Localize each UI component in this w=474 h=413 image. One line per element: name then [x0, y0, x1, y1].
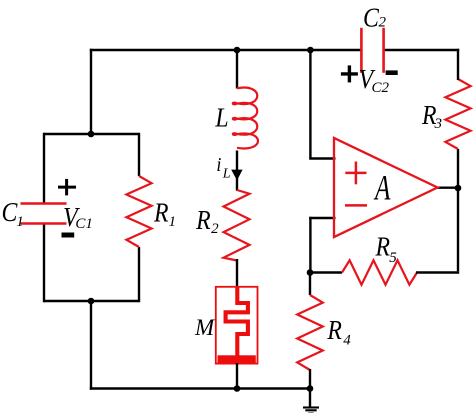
resistor R5 zigzag — [342, 260, 417, 284]
svg-text:R: R — [326, 315, 342, 346]
wire left riser bottom — [90, 300, 92, 390]
wire inductor top leg — [236, 49, 238, 89]
wire R4 top leg — [309, 271, 311, 295]
minus polarity mark of C1 — [62, 233, 75, 238]
wire R3 top leg — [457, 49, 459, 80]
wire op-amp noninverting branch — [309, 49, 335, 159]
label R1 — [153, 197, 176, 230]
wire memristor to bottom rail — [236, 363, 238, 390]
op-amp noninverting plus mark — [345, 162, 366, 185]
resistor R4 zigzag — [297, 295, 323, 370]
resistor R1 zigzag — [126, 176, 151, 247]
label C1 — [2, 196, 24, 230]
resistor R2 zigzag — [224, 190, 250, 261]
wire C1-R1 top row — [44, 133, 139, 135]
capacitor C2 plates — [361, 28, 383, 73]
label A gain — [373, 167, 391, 208]
memristor M body outline — [216, 287, 258, 364]
svg-text:2: 2 — [211, 221, 219, 237]
node dot R4/R5 junction — [307, 269, 314, 276]
op-amp A triangle — [334, 138, 438, 237]
minus polarity mark of C2 — [386, 70, 398, 75]
memristor M bottom electrode bar — [218, 355, 256, 363]
svg-text:R: R — [375, 231, 391, 262]
svg-text:5: 5 — [389, 250, 397, 266]
label R3 — [421, 100, 442, 132]
svg-text:2: 2 — [378, 15, 386, 31]
svg-text:1: 1 — [16, 214, 24, 230]
svg-text:R: R — [153, 197, 169, 228]
svg-text:L: L — [214, 102, 228, 133]
plus polarity mark of C2 — [341, 65, 358, 82]
label M — [194, 315, 216, 340]
svg-text:L: L — [222, 166, 231, 181]
memristor M internal meander — [226, 288, 248, 357]
svg-text:1: 1 — [169, 214, 177, 230]
label V_C1 — [63, 202, 93, 233]
wire R2 to memristor — [236, 259, 238, 288]
wire R5 left leg — [309, 271, 342, 273]
wire R1 bottom leg — [138, 247, 140, 302]
label V_C2 — [359, 63, 390, 96]
node dot bottom memristor branch — [234, 385, 241, 392]
wire inductor to R2 with current arrow — [236, 151, 238, 191]
wire R3 bottom leg — [457, 149, 459, 187]
label L — [214, 102, 228, 133]
ground symbol — [303, 387, 319, 413]
wire R1 top leg — [138, 133, 140, 176]
label R4 — [326, 315, 351, 349]
svg-text:4: 4 — [343, 332, 351, 348]
inductor L coil — [233, 88, 258, 149]
label R5 — [375, 231, 398, 266]
op-amp inverting minus mark — [345, 204, 367, 207]
svg-text:3: 3 — [433, 116, 442, 132]
node junction bottom of C1/R1 loop — [88, 298, 95, 305]
wire C1 bottom leg — [43, 224, 45, 303]
wire top rail right segment — [384, 49, 460, 51]
wire top rail left segment — [90, 49, 362, 51]
node junction top of C1/R1 loop — [88, 131, 95, 138]
wire C1 top leg — [43, 133, 45, 204]
node dot top op-amp branch — [307, 47, 314, 54]
wire R4 bottom leg — [309, 369, 311, 390]
wire bottom rail — [90, 387, 311, 389]
label C2 — [363, 2, 386, 33]
svg-text:C: C — [363, 2, 380, 33]
resistor R3 zigzag — [445, 79, 470, 149]
svg-text:A: A — [373, 167, 391, 208]
node dot ground junction — [307, 385, 314, 392]
label i_L — [216, 154, 230, 181]
plus polarity mark of C1 — [58, 179, 76, 196]
wire R5 right leg — [416, 271, 459, 273]
svg-text:i: i — [216, 154, 221, 176]
wire right riser output to R5 — [457, 189, 459, 271]
node dot op-amp output — [455, 185, 462, 192]
current arrow i_L head — [231, 170, 242, 181]
wire left riser top — [90, 49, 92, 134]
svg-text:M: M — [194, 315, 216, 340]
svg-text:C2: C2 — [371, 80, 389, 96]
label R2 — [195, 204, 219, 237]
wire C1-R1 bottom row — [44, 300, 139, 302]
capacitor C1 plates — [21, 204, 67, 224]
svg-text:C1: C1 — [75, 216, 93, 232]
node dot top inductor branch — [234, 47, 241, 54]
wire op-amp output stub — [437, 186, 459, 188]
wire op-amp inverting branch — [309, 217, 335, 274]
svg-text:R: R — [195, 204, 211, 235]
